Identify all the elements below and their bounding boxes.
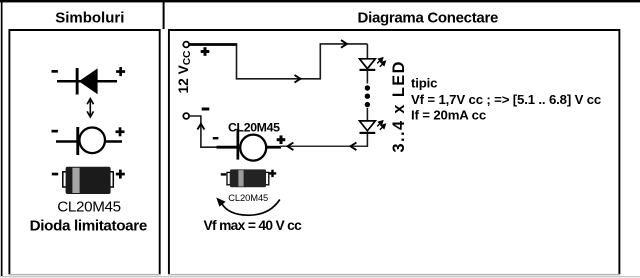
svg-text:Vf max = 40 V cc: Vf max = 40 V cc <box>204 218 303 233</box>
svg-text:tipic: tipic <box>411 76 437 91</box>
arrow up on vertical segment <box>197 124 204 130</box>
limiter diode CL20M45 circle <box>240 135 266 161</box>
diode left wire thick <box>217 146 238 149</box>
svg-text:CL20M45: CL20M45 <box>57 199 120 216</box>
diode symbol wire <box>57 80 117 83</box>
package D right lead <box>265 172 268 184</box>
wire corner to LED D1 anode <box>366 44 368 59</box>
package D cathode band <box>238 170 243 186</box>
package D (bottom) minus sign <box>221 173 226 175</box>
diode symbol plus sign <box>116 70 125 73</box>
outer frame top border <box>0 0 640 2</box>
diode symbol cathode bar <box>76 68 79 95</box>
plus sign at terminal <box>201 50 210 53</box>
diode plus sign <box>277 138 286 141</box>
current-regulator symbol plus sign <box>116 130 125 133</box>
LED D1 <box>360 59 376 69</box>
node: 12 Vcc - terminal <box>183 113 189 119</box>
svg-text:Diagrama Conectare: Diagrama Conectare <box>358 9 499 26</box>
package symbol cathode band <box>72 168 79 193</box>
arrow left near LED2 <box>351 143 357 151</box>
svg-text:Vf = 1,7V cc ; => [5.1 .. 6.8]: Vf = 1,7V cc ; => [5.1 .. 6.8] V cc <box>411 92 601 107</box>
package D plus sign <box>269 172 276 174</box>
current-regulator symbol circle <box>79 128 105 154</box>
current-regulator symbol bar <box>76 127 79 155</box>
wire dots to D2 <box>366 108 368 121</box>
package symbol right lead <box>109 172 113 187</box>
arrow right on upper segment <box>341 40 347 48</box>
arrow left near diode <box>288 143 294 151</box>
package symbol plus sign <box>116 173 125 176</box>
package D body <box>230 169 266 187</box>
current-regulator symbol right wire <box>105 140 122 143</box>
ellipsis dots (more LEDs) <box>365 85 370 90</box>
wire D2 to return <box>366 133 368 147</box>
node: 12 Vcc + terminal <box>183 42 189 48</box>
outer frame left border <box>1 0 3 277</box>
current-regulator symbol left wire <box>56 140 78 143</box>
wire D1 to dots <box>366 70 368 84</box>
LED D1 light arrows <box>377 58 385 67</box>
left panel box <box>9 30 159 275</box>
svg-text:Dioda limitatoare: Dioda limitatoare <box>30 218 147 235</box>
diode symbol triangle <box>79 68 98 94</box>
LED D2 light arrows <box>377 121 385 130</box>
package symbol left lead <box>63 172 67 187</box>
package symbol body <box>66 167 111 194</box>
wire terminal- to diode <box>189 116 217 147</box>
zig-zag wire from + terminal to LED string <box>237 44 368 79</box>
svg-text:CL20M45: CL20M45 <box>228 192 268 203</box>
title divider <box>163 0 165 29</box>
LED D2 <box>360 121 376 131</box>
minus sign at terminal <box>202 108 210 111</box>
current-regulator symbol minus sign <box>52 130 58 133</box>
return wire LED2 to diode <box>280 145 367 147</box>
wire terminal+ to corner <box>189 43 237 46</box>
diode minus sign <box>213 137 219 139</box>
svg-text:If = 20mA cc: If = 20mA cc <box>411 108 486 123</box>
svg-text:Simboluri: Simboluri <box>55 9 124 26</box>
outer frame bottom border <box>0 276 640 277</box>
svg-text:CL20M45: CL20M45 <box>228 120 280 134</box>
svg-text:3..4 x LED: 3..4 x LED <box>390 60 408 152</box>
package D left lead <box>227 172 230 184</box>
diode cathode bar <box>237 129 240 160</box>
right panel box <box>169 30 620 275</box>
package symbol minus sign <box>52 173 58 176</box>
rotation arc arrow <box>221 200 280 216</box>
diode right wire thick <box>266 146 281 149</box>
diode symbol minus sign <box>52 70 58 73</box>
arrow right on lower segment <box>295 75 301 83</box>
equivalence double arrow <box>87 99 93 117</box>
